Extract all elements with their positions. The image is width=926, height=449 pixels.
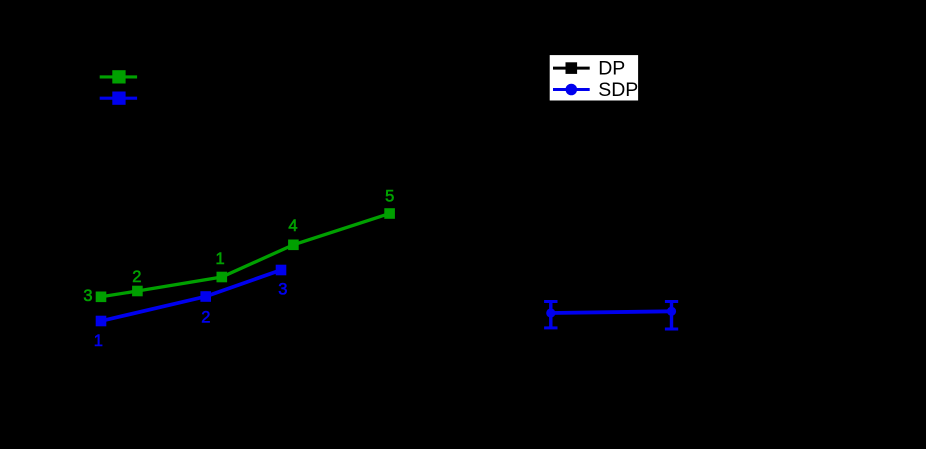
svg-text:2: 2 xyxy=(132,268,141,286)
svg-text:2: 2 xyxy=(201,309,210,327)
svg-text:SDP: SDP xyxy=(598,79,638,101)
svg-text:5: 5 xyxy=(385,187,394,205)
svg-text:3: 3 xyxy=(278,280,287,298)
svg-text:1: 1 xyxy=(94,332,103,350)
svg-text:DP: DP xyxy=(598,58,625,80)
svg-text:4: 4 xyxy=(288,217,297,235)
svg-text:1: 1 xyxy=(216,250,225,268)
svg-text:3: 3 xyxy=(83,287,92,305)
